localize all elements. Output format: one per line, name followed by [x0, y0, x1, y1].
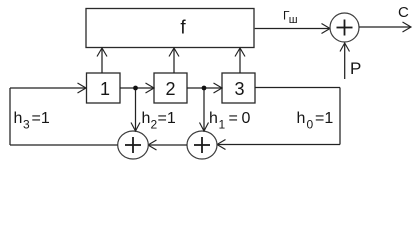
wire adder to output C	[359, 26, 410, 28]
svg-text:2: 2	[151, 118, 158, 132]
arrowhead into adder	[322, 24, 331, 34]
register 3	[222, 73, 255, 103]
wire tap node A down to XOR1	[131, 90, 140, 131]
svg-text:h: h	[142, 110, 151, 127]
label h1=0	[209, 110, 251, 132]
wire tap node B down to XOR2	[200, 90, 209, 131]
wire net Гш from f to adder	[255, 28, 329, 30]
junction dot node A	[133, 86, 138, 91]
svg-text:3: 3	[23, 118, 30, 132]
svg-text:1: 1	[100, 79, 110, 99]
wire XOR2 to XOR1	[148, 140, 187, 150]
wire reg1 to reg2	[120, 83, 154, 93]
svg-text:0: 0	[242, 110, 251, 127]
arrowhead output C	[403, 22, 412, 32]
svg-text:=1: =1	[32, 110, 50, 127]
wire feedback into reg1	[10, 83, 86, 93]
wire P input	[344, 44, 346, 79]
wire reg2 to reg3	[187, 83, 222, 93]
wire left vertical feedback	[9, 88, 11, 145]
wire XOR1 output left	[10, 144, 118, 146]
wire reg1 to f	[97, 48, 107, 73]
svg-text:P: P	[350, 59, 361, 78]
svg-text:=: =	[229, 110, 238, 127]
wire reg2 to f	[169, 48, 179, 73]
svg-text:h: h	[14, 110, 23, 127]
XOR adder 1	[118, 131, 149, 159]
XOR adder 2	[187, 131, 217, 159]
svg-text:0: 0	[307, 118, 314, 132]
arrowhead P into adder	[340, 43, 350, 52]
svg-text:=1: =1	[158, 110, 176, 127]
svg-text:2: 2	[165, 79, 175, 99]
svg-text:3: 3	[234, 79, 244, 99]
wire bottom to XOR2	[217, 140, 340, 150]
adder U4 output XOR	[330, 13, 359, 42]
register 2	[154, 73, 187, 103]
wire right vertical feedback	[339, 88, 341, 145]
register 1	[87, 73, 121, 103]
svg-text:f: f	[180, 18, 186, 39]
junction dot node B	[202, 86, 207, 91]
label h3=1	[14, 110, 50, 132]
label Гш	[283, 9, 298, 27]
svg-text:ш: ш	[289, 14, 298, 26]
svg-text:=1: =1	[315, 110, 333, 127]
wire reg3 output to right	[255, 87, 340, 89]
svg-text:h: h	[209, 110, 218, 127]
label h0=1	[297, 110, 334, 132]
label h2=1	[142, 110, 176, 132]
svg-text:C: C	[398, 4, 409, 21]
svg-text:h: h	[297, 110, 306, 127]
svg-text:1: 1	[219, 118, 226, 132]
wire reg3 to f	[235, 48, 245, 73]
block f (feedback function)	[86, 9, 254, 48]
